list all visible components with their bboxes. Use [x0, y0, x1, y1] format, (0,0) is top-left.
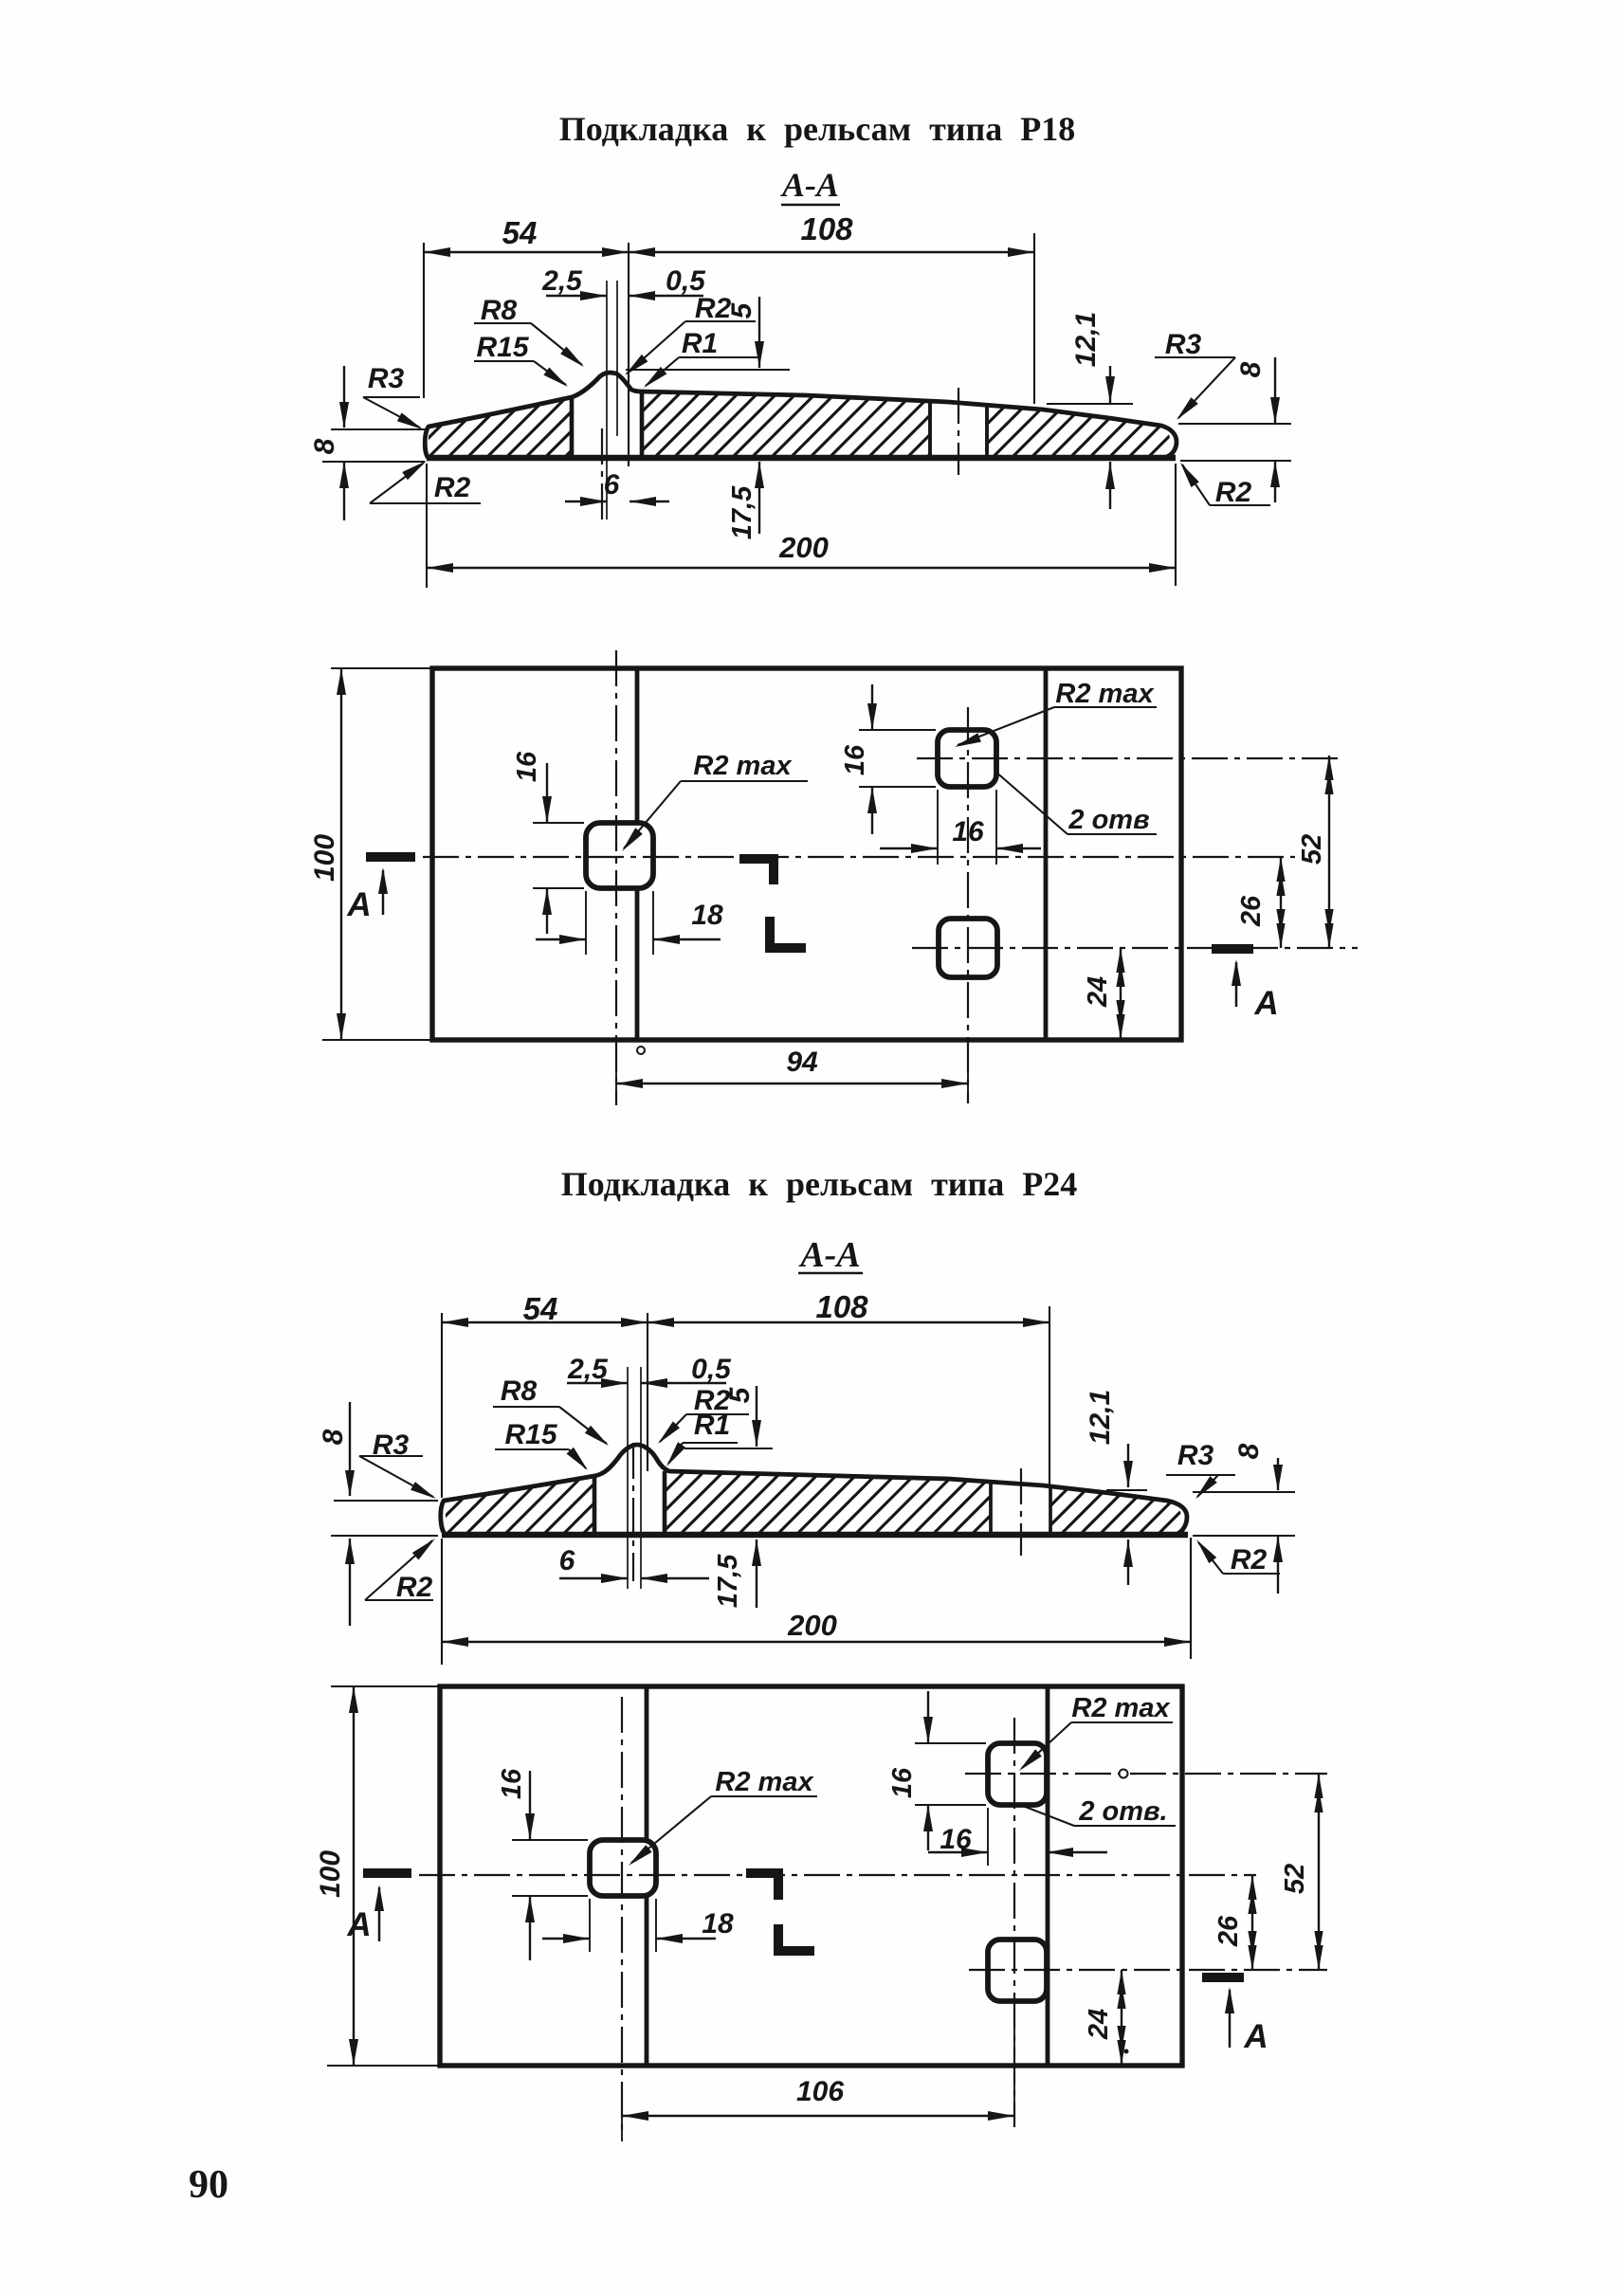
svg-text:16: 16: [940, 1824, 972, 1855]
svg-text:А: А: [1253, 985, 1278, 1022]
svg-text:24: 24: [1084, 2009, 1114, 2040]
leader R3 right (Р18): [1155, 329, 1235, 420]
leader R2 max hole1 (Р18 plan): [622, 751, 808, 851]
section cut mark А left (Р18 plan): [346, 857, 415, 923]
dimension 106 (Р24 plan): [622, 2004, 1014, 2141]
dimension 16 vertical hole1 (Р18 plan): [512, 751, 584, 934]
square hole 3 (Р18 plan): [939, 919, 997, 977]
svg-text:R15: R15: [504, 1419, 557, 1450]
leader R15 (Р24): [495, 1419, 588, 1470]
extension line right x=1240 below tip (Р18): [1175, 464, 1177, 586]
svg-text:18: 18: [691, 900, 723, 931]
partial break mark upper (Р24 plan): [746, 1873, 778, 1900]
plan view plate outline (Р24): [440, 1686, 1182, 2066]
dimension 12,1 (Р24): [1085, 1390, 1147, 1585]
dimension 2,5 (Р18): [541, 265, 607, 301]
svg-text:54: 54: [523, 1291, 558, 1326]
centerline of hole1 in section (Р24): [632, 1443, 634, 1581]
dimension 2,5 (Р24): [567, 1354, 628, 1388]
partial break mark upper (Р18 plan): [739, 859, 774, 884]
svg-text:R2: R2: [1231, 1544, 1268, 1576]
vertical centerline hole1 (Р24 plan): [621, 1697, 623, 2135]
hole edge line left x=603 (Р18 section): [570, 398, 575, 456]
dimension 17,5 (Р24): [713, 1539, 761, 1608]
extension line x=1107 (Р24): [1049, 1306, 1050, 1486]
svg-text:16: 16: [952, 816, 984, 847]
thin line pair at hump x=662,676 (Р24): [628, 1367, 641, 1589]
dimension 16 vertical hole2 (Р18 plan): [840, 684, 936, 834]
dimension 8 right (Р24): [1193, 1443, 1295, 1594]
svg-text:А-А: А-А: [780, 166, 839, 204]
leader R1 (Р18): [644, 328, 758, 388]
title: Подкладка к рельсам типа Р24: [561, 1165, 1078, 1203]
svg-text:2,5: 2,5: [567, 1354, 609, 1385]
svg-text:16: 16: [512, 751, 542, 782]
svg-text:R1: R1: [682, 328, 718, 359]
svg-text:2,5: 2,5: [541, 265, 583, 297]
svg-text:А: А: [346, 1906, 371, 1943]
dimension 26 (Р24 plan): [1213, 1875, 1257, 1970]
dimension 16 vertical hole2 (Р24 plan): [887, 1691, 986, 1850]
svg-text:12,1: 12,1: [1085, 1390, 1116, 1445]
extension line right x=1256 below tip (Р24): [1190, 1538, 1192, 1659]
svg-text:5: 5: [724, 1386, 756, 1403]
centerline of hole2 cut in section (Р24): [1020, 1468, 1022, 1556]
svg-text:8: 8: [1233, 1443, 1265, 1459]
svg-text:6: 6: [559, 1545, 575, 1576]
svg-text:2 отв.: 2 отв.: [1078, 1796, 1167, 1827]
svg-text:А: А: [346, 886, 371, 923]
dimension 17,5 (Р18): [727, 462, 764, 539]
svg-text:Подкладка к рельсам типа Р24: Подкладка к рельсам типа Р24: [561, 1165, 1078, 1203]
svg-text:100: 100: [315, 1850, 346, 1898]
dimension 6 (Р18): [565, 469, 669, 506]
leader R2 hump (Р24): [658, 1385, 749, 1444]
svg-text:R2: R2: [396, 1572, 433, 1603]
cross-section profile outline (Р18): [425, 373, 1177, 458]
svg-text:18: 18: [702, 1908, 734, 1940]
svg-text:R3: R3: [1177, 1440, 1214, 1471]
svg-text:90: 90: [189, 2163, 228, 2207]
leader 2 отв. (Р24 plan): [1023, 1796, 1176, 1827]
extension line x=683 (Р24): [647, 1313, 648, 1471]
svg-text:R1: R1: [694, 1410, 730, 1441]
svg-text:R2 mах: R2 mах: [1071, 1693, 1171, 1723]
leader R2 max hole2 (Р24 plan): [1019, 1693, 1173, 1771]
small circle marker on hole2 centerline (Р24 plan): [1120, 1770, 1128, 1778]
dimension line 54/108 (Р18): [424, 247, 1034, 257]
leader R2 left (Р18): [370, 461, 481, 503]
section label А-А (Р18): [780, 166, 840, 205]
svg-text:R2 mах: R2 mах: [693, 751, 793, 781]
hole2 cut edge right x=1108 (Р24 section): [1049, 1486, 1052, 1533]
cross-section profile outline (Р24): [441, 1445, 1187, 1535]
horizontal centerline hole2 (Р24 plan): [965, 1773, 1327, 1775]
hole edge line right x=701 (Р24 section): [663, 1471, 667, 1533]
svg-text:200: 200: [787, 1609, 837, 1642]
dimension 8 left (Р18): [309, 366, 425, 520]
dimension line 54/108 (Р24): [442, 1318, 1049, 1327]
dimension 16 horizontal hole2 (Р18 plan): [880, 790, 1041, 865]
svg-text:А: А: [1243, 2018, 1268, 2055]
svg-text:R2 mах: R2 mах: [1055, 679, 1155, 709]
dimension 100 (Р18 plan): [309, 668, 432, 1040]
svg-text:R8: R8: [501, 1375, 538, 1407]
svg-text:8: 8: [309, 438, 340, 454]
svg-text:R2 mах: R2 mах: [715, 1767, 814, 1797]
svg-text:16: 16: [840, 744, 870, 775]
svg-text:24: 24: [1083, 976, 1113, 1008]
thin line pair at hump x=640,651 (Р18): [607, 281, 617, 519]
hole edge line right x=677 (Р18 section): [640, 392, 645, 456]
extension line x=466 (Р24): [441, 1313, 443, 1498]
vertical centerline holes 2-3 (Р18 plan): [967, 707, 969, 1103]
leader R3 left (Р24): [359, 1430, 436, 1499]
section bottom face line (Р24): [442, 1532, 1188, 1538]
rail seat edge line right (Р24 plan): [1046, 1686, 1050, 2066]
dimension 100 (Р24 plan): [315, 1686, 440, 2066]
svg-text:0,5: 0,5: [691, 1354, 732, 1385]
svg-text:16: 16: [497, 1768, 527, 1799]
extension line x=447 (Р18): [423, 243, 425, 398]
dimension 52 (Р18 plan): [1297, 756, 1334, 948]
leader R8 (Р18): [474, 295, 584, 367]
svg-text:2 отв: 2 отв: [1067, 805, 1149, 835]
dimension 12,1 (Р18): [1047, 312, 1133, 509]
leader R2 right (Р18): [1180, 463, 1270, 508]
svg-text:94: 94: [786, 1047, 818, 1078]
extension line x=1091 (Р18): [1033, 233, 1035, 404]
svg-text:8: 8: [318, 1429, 349, 1445]
dimension 94 (Р18 plan): [616, 1045, 968, 1105]
svg-text:А-А: А-А: [798, 1235, 860, 1275]
dimension 24 (Р18 plan): [1083, 948, 1125, 1039]
dimension 6 (Р24): [559, 1545, 709, 1583]
svg-text:5: 5: [726, 301, 757, 319]
svg-text:26: 26: [1213, 1915, 1244, 1947]
square hole 2 (Р24 plan): [988, 1743, 1047, 1805]
section bottom face line (Р18): [427, 455, 1176, 461]
svg-text:R3: R3: [368, 363, 405, 394]
leader R8 (Р24): [493, 1375, 609, 1446]
svg-text:R3: R3: [1165, 329, 1202, 360]
svg-text:200: 200: [778, 531, 829, 564]
plan view plate outline (Р18): [432, 668, 1181, 1040]
dimension 18 (Р24 plan): [542, 1899, 734, 1952]
leader 2 отв (Р18 plan): [994, 771, 1157, 835]
leader R2 max hole2 (Р18 plan): [955, 679, 1157, 747]
svg-text:Подкладка к рельсам типа Р18: Подкладка к рельсам типа Р18: [559, 110, 1076, 148]
svg-text:17,5: 17,5: [727, 485, 757, 539]
svg-text:26: 26: [1236, 895, 1267, 927]
vertical centerline holes 2-3 (Р24 plan): [1013, 1718, 1015, 2127]
svg-text:16: 16: [887, 1767, 918, 1798]
dimension 16 vertical hole1 (Р24 plan): [497, 1768, 588, 1960]
dimension 16 horizontal hole2 (Р24 plan): [928, 1808, 1107, 1866]
section cut mark А right (Р24 plan): [1202, 1977, 1268, 2055]
small dot near 24 dim (Р24 plan): [1124, 2049, 1129, 2054]
svg-text:R2: R2: [434, 472, 471, 503]
leader R15 (Р18): [474, 332, 568, 387]
leader R3 right (Р24): [1166, 1440, 1235, 1499]
small mark below plate (Р18 plan): [637, 1047, 645, 1054]
dimension 5 shoulder height (Р18): [626, 297, 790, 370]
hole2 cut edge left x=981 (Р18 section): [928, 400, 932, 456]
horizontal centerline of plate (Р18 plan): [423, 856, 1295, 858]
square hole 1 (Р24 plan): [590, 1840, 656, 1896]
dimension 8 right (Р18): [1178, 357, 1291, 502]
leader R2 right (Р24): [1196, 1539, 1280, 1576]
section cut mark А right (Р18 plan): [1212, 949, 1279, 1022]
section label А-А (Р24): [798, 1235, 863, 1275]
svg-text:106: 106: [796, 2076, 844, 2107]
square hole 2 (Р18 plan): [938, 730, 996, 787]
dimension 8 left (Р24): [318, 1402, 438, 1626]
hole2 cut edge right x=1041 (Р18 section): [985, 404, 989, 456]
svg-text:R15: R15: [476, 332, 529, 363]
centerline of hole1 in section (Р18): [601, 428, 603, 519]
extension line left x=466 below (Р24): [441, 1539, 443, 1665]
svg-text:108: 108: [800, 211, 853, 246]
dimension 0,5 (Р24): [641, 1354, 732, 1388]
section cut mark А left (Р24 plan): [346, 1873, 411, 1943]
rail seat edge line right (Р18 plan): [1044, 668, 1049, 1040]
square hole 3 (Р24 plan): [988, 1940, 1047, 2001]
extension line x=663 (Р18): [628, 243, 630, 466]
rail seat edge line left (Р18 plan): [635, 668, 640, 1040]
horizontal centerline of plate (Р24 plan): [419, 1874, 1256, 1876]
dimension 200 (Р24): [442, 1609, 1191, 1647]
dimension 0,5 (Р18): [629, 265, 706, 301]
leader R2 max hole1 (Р24 plan): [629, 1767, 817, 1866]
dimension 52 (Р24 plan): [1280, 1774, 1323, 1970]
svg-text:6: 6: [604, 469, 620, 501]
hole edge line left x=627 (Р24 section): [593, 1477, 597, 1533]
svg-text:52: 52: [1297, 834, 1327, 865]
partial break mark lower (Р24 plan): [778, 1924, 814, 1951]
svg-text:R8: R8: [481, 295, 518, 326]
partial break mark lower (Р18 plan): [770, 917, 806, 948]
svg-text:12,1: 12,1: [1070, 312, 1102, 367]
dimension 200 (Р18): [427, 531, 1176, 573]
svg-text:54: 54: [502, 215, 538, 250]
vertical centerline hole1 (Р18 plan): [615, 650, 617, 1105]
rail seat edge line left (Р24 plan): [645, 1686, 649, 2066]
leader R2 left (Р24): [365, 1539, 435, 1603]
horizontal centerline hole3 (Р24 plan): [969, 1969, 1327, 1971]
horizontal centerline hole3 (Р18 plan): [912, 947, 1358, 949]
leader R3 left (Р18): [363, 363, 423, 429]
svg-text:100: 100: [309, 834, 340, 882]
leader R1 (Р24): [666, 1410, 738, 1466]
leader R2 hump (Р18): [625, 293, 756, 375]
square hole 1 (Р18 plan): [586, 823, 653, 888]
horizontal centerline hole2 (Р18 plan): [917, 757, 1339, 759]
dimension 18 (Р18 plan): [536, 891, 723, 955]
svg-text:R2: R2: [1215, 477, 1252, 508]
svg-text:17,5: 17,5: [713, 1554, 743, 1608]
svg-text:108: 108: [815, 1289, 868, 1324]
centerline of hole2 cut in section (Р18): [958, 388, 959, 475]
hole2 cut edge left x=1045 (Р24 section): [989, 1483, 993, 1533]
dimension 24 (Р24 plan): [1084, 1970, 1126, 2065]
svg-text:52: 52: [1280, 1864, 1310, 1894]
dimension 5 shoulder height (Р24): [684, 1386, 773, 1448]
svg-text:8: 8: [1235, 361, 1267, 377]
dimension 26 (Р18 plan): [1236, 857, 1286, 948]
title: Подкладка к рельсам типа Р18: [559, 110, 1076, 148]
extension line left x=450 below tip (Р18): [426, 464, 428, 588]
